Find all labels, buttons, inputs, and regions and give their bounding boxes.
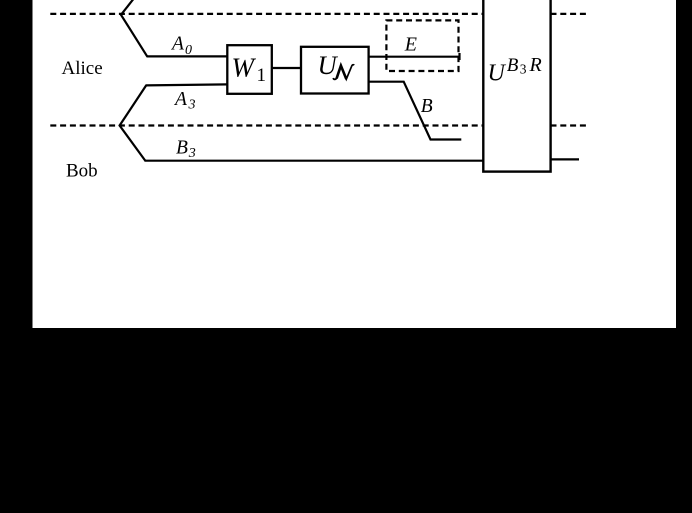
svg-text:A: A	[173, 89, 187, 110]
box W1	[227, 45, 271, 94]
wire B (channel output to Bob)	[369, 82, 462, 140]
Bob fan split	[120, 85, 147, 161]
label B3	[176, 137, 196, 161]
wire B3 output	[551, 158, 579, 160]
svg-text:3: 3	[188, 146, 196, 161]
svg-text:E: E	[404, 34, 417, 56]
dashed boundary line bottom right segment	[551, 124, 588, 126]
svg-text:3: 3	[188, 97, 196, 112]
wire A3	[146, 84, 228, 85]
wire E end tick	[458, 53, 460, 60]
dashed boundary line top (Alice cut) left segment	[50, 13, 483, 15]
box UN (channel isometry)	[301, 47, 369, 94]
svg-text:Alice: Alice	[62, 58, 103, 79]
svg-text:1: 1	[257, 65, 267, 86]
svg-text:3: 3	[520, 62, 527, 77]
wire B3	[145, 160, 485, 162]
svg-text:R: R	[529, 54, 542, 76]
svg-text:Bob: Bob	[66, 160, 98, 181]
label A3	[173, 89, 196, 113]
svg-text:U: U	[318, 50, 339, 80]
wire A0	[147, 55, 229, 57]
label A0	[170, 34, 192, 59]
svg-text:A: A	[170, 34, 184, 55]
dashed boundary line bottom (Alice/Bob cut) left segment	[50, 124, 483, 126]
Alice fan split	[121, 0, 147, 56]
svg-text:B: B	[176, 137, 188, 158]
wire E (environment output)	[369, 56, 460, 58]
wire W1 to UN	[272, 67, 302, 69]
dashed boundary line top right segment	[551, 13, 590, 15]
svg-text:U: U	[488, 60, 507, 86]
svg-text:0: 0	[185, 43, 192, 58]
dashed box E	[386, 20, 458, 71]
svg-text:B: B	[421, 96, 433, 117]
svg-text:W: W	[232, 53, 257, 83]
box U^B3R (Bob unitary)	[483, 0, 550, 172]
svg-text:B: B	[507, 55, 519, 76]
